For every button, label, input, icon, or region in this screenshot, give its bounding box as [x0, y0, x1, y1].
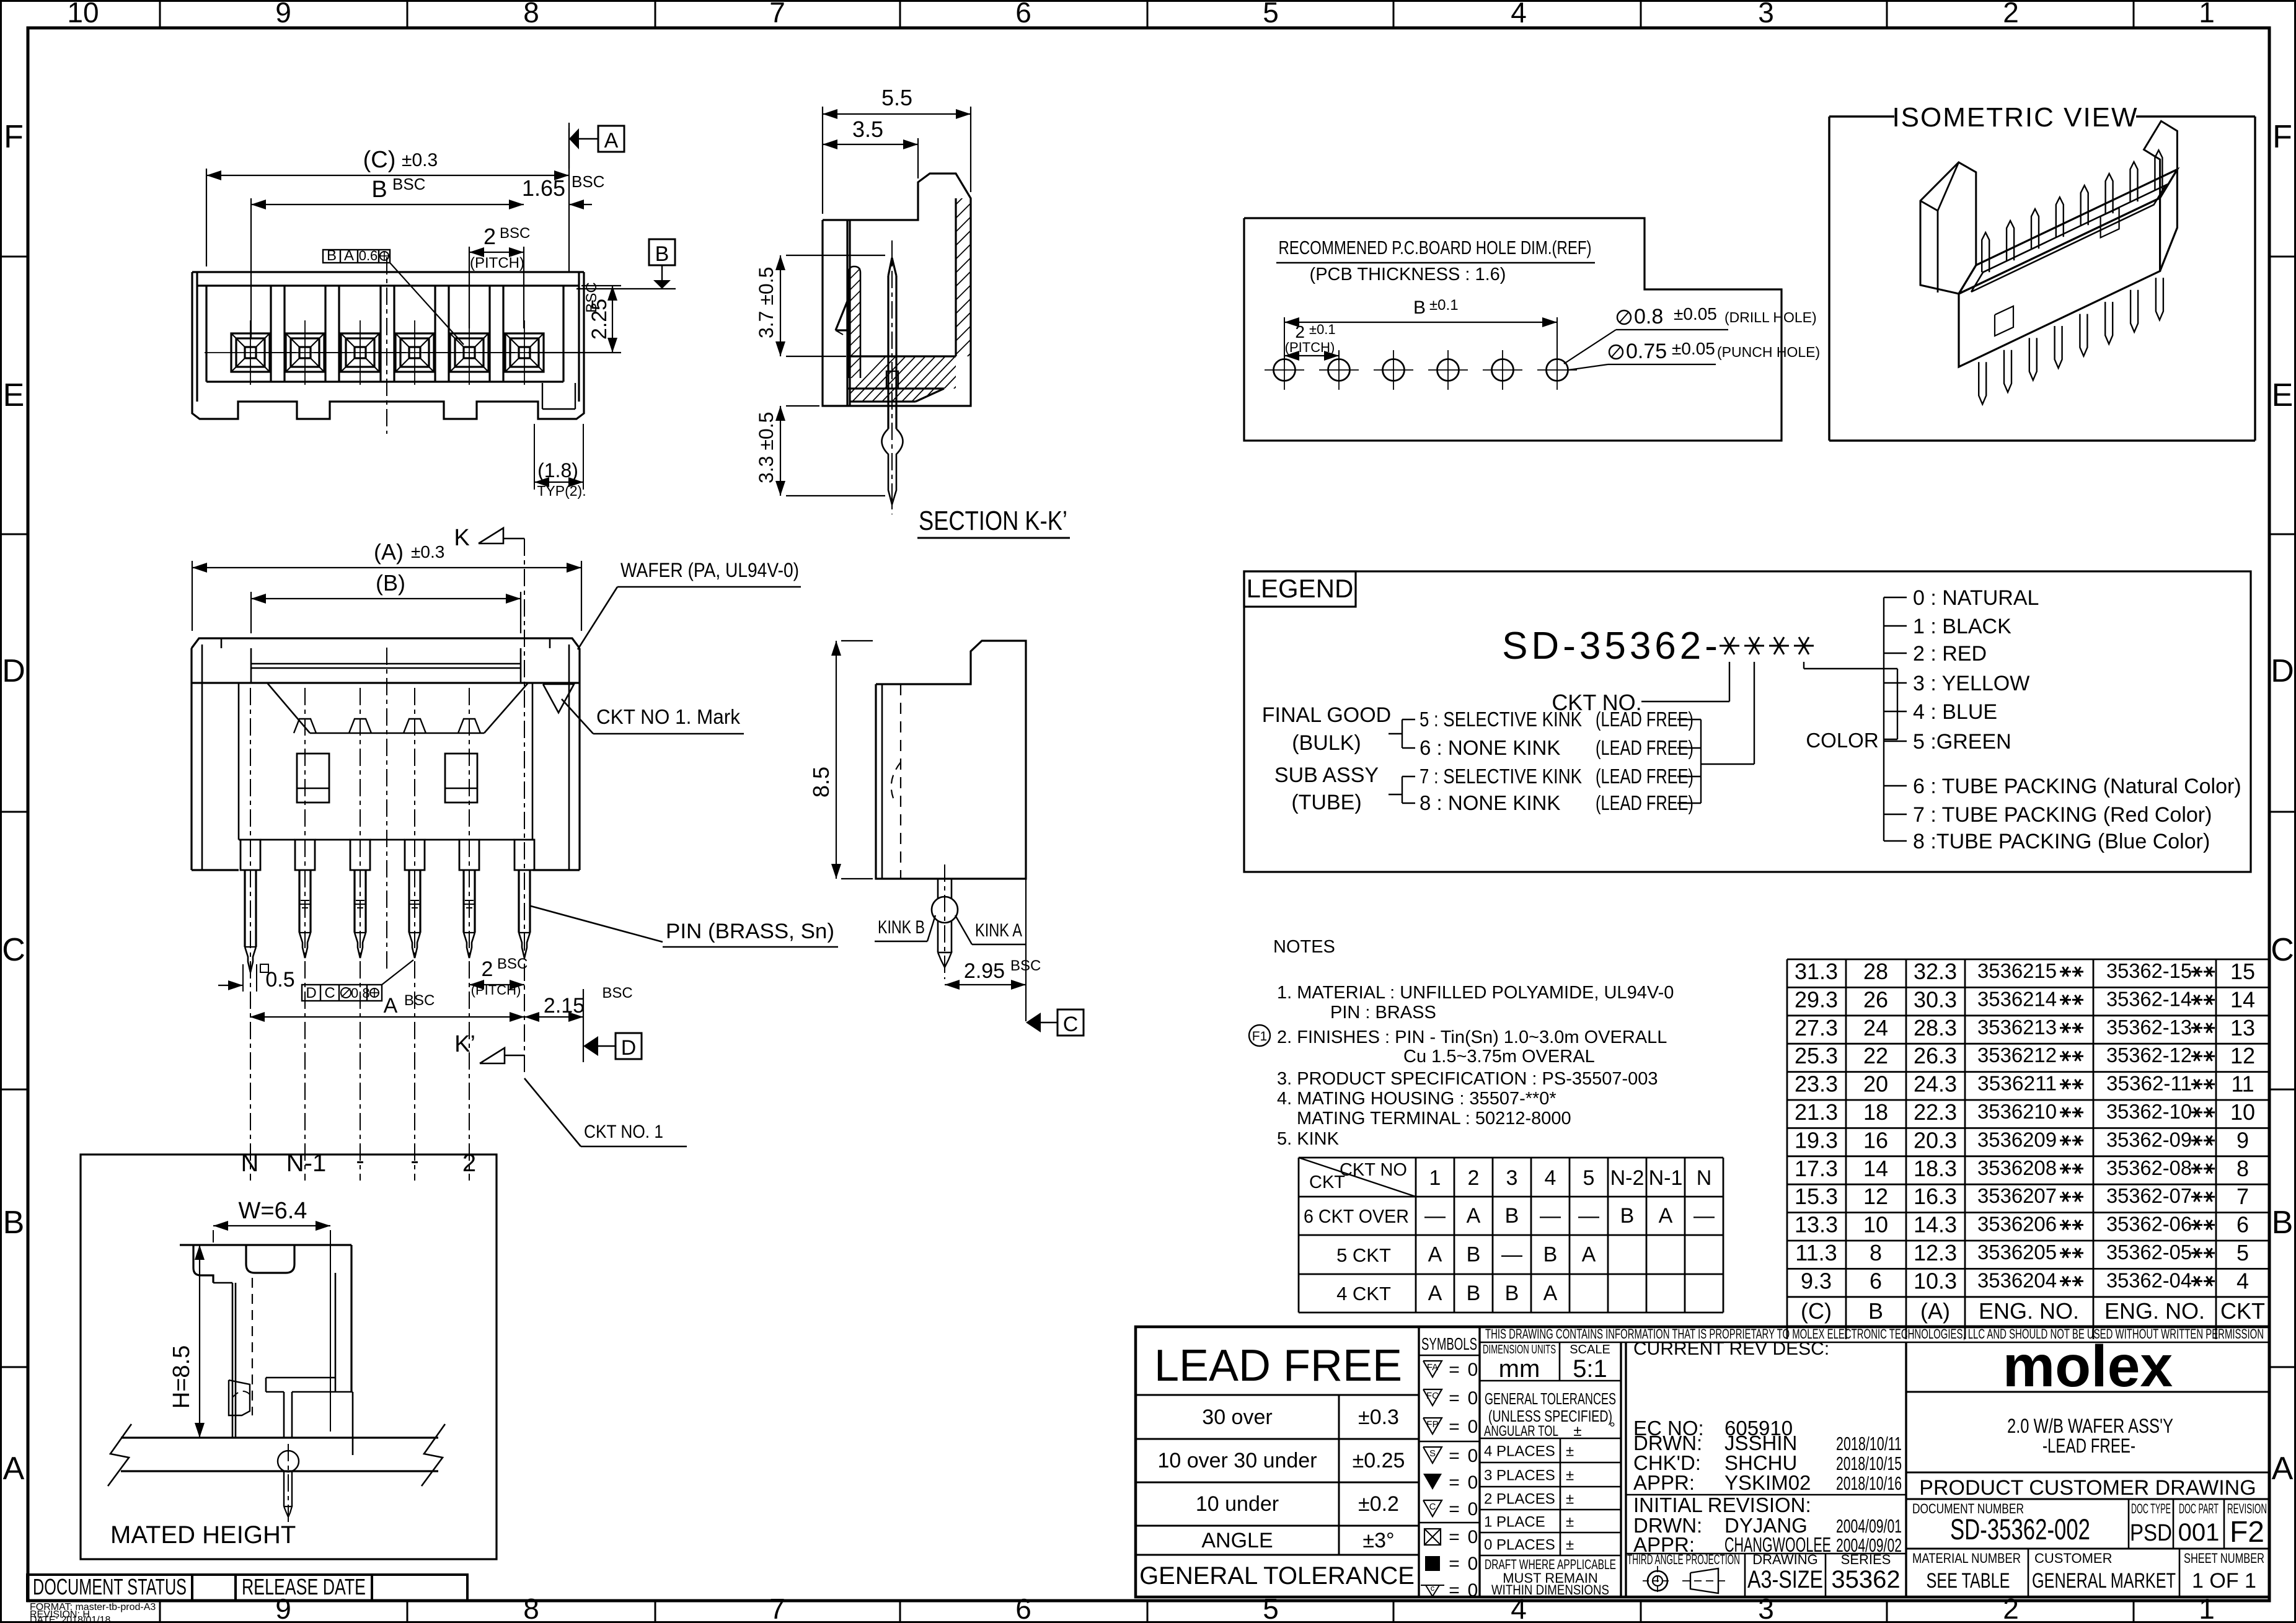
- svg-text:=: =: [1449, 1446, 1460, 1466]
- svg-text:10 under: 10 under: [1196, 1492, 1279, 1516]
- svg-text:2004/09/01: 2004/09/01: [1836, 1515, 1902, 1537]
- svg-text:±: ±: [1566, 1443, 1574, 1460]
- svg-text:5. KINK: 5. KINK: [1277, 1129, 1340, 1149]
- bottom view housing band: [192, 638, 580, 648]
- svg-text:5 : SELECTIVE KINK: 5 : SELECTIVE KINK: [1420, 708, 1582, 731]
- kink table: [1299, 1157, 1723, 1159]
- section K-K outline: [823, 174, 971, 406]
- svg-text:B: B: [3, 1205, 25, 1241]
- svg-text:±0.1: ±0.1: [1309, 322, 1336, 337]
- svg-text:KINK B: KINK B: [878, 917, 925, 938]
- svg-text:15.3: 15.3: [1795, 1184, 1838, 1209]
- svg-text:20: 20: [1863, 1071, 1888, 1097]
- svg-text:0: 0: [1468, 1554, 1478, 1574]
- svg-text:N-2: N-2: [1610, 1166, 1645, 1190]
- svg-text:A: A: [604, 129, 619, 152]
- dim 2.25 BSC: [581, 285, 621, 286]
- svg-text:PIN : BRASS: PIN : BRASS: [1330, 1003, 1436, 1023]
- svg-text:A: A: [1543, 1282, 1558, 1305]
- svg-text:11.3: 11.3: [1795, 1240, 1837, 1265]
- svg-text:6: 6: [1015, 0, 1031, 29]
- svg-text:ANGLE: ANGLE: [1201, 1529, 1273, 1552]
- dim 0.5 pin: [242, 964, 244, 992]
- svg-text:5: 5: [2236, 1240, 2249, 1265]
- svg-text:=: =: [1449, 1527, 1460, 1547]
- dim W: [213, 1230, 214, 1243]
- symbol row FC: [1423, 1389, 1442, 1405]
- svg-text:10 over 30 under: 10 over 30 under: [1157, 1449, 1317, 1472]
- svg-text:SYMBOLS: SYMBOLS: [1421, 1334, 1477, 1353]
- isometric right end wall: [2144, 121, 2178, 198]
- svg-text:KINK A: KINK A: [975, 920, 1022, 941]
- svg-text:8: 8: [523, 1593, 539, 1623]
- svg-text:=: =: [1449, 1472, 1460, 1493]
- pin through pcb: [278, 1451, 299, 1472]
- svg-text:F: F: [4, 119, 24, 155]
- svg-text:B: B: [2272, 1205, 2294, 1241]
- svg-text:9.3: 9.3: [1801, 1268, 1832, 1293]
- symbol row ctri: [1426, 1585, 1439, 1596]
- svg-text:30.3: 30.3: [1914, 987, 1957, 1012]
- svg-text:LEAD FREE: LEAD FREE: [1154, 1341, 1402, 1391]
- svg-text:0.5: 0.5: [265, 968, 294, 992]
- isometric inner rim: [1971, 185, 2166, 292]
- section floor: [850, 355, 956, 357]
- svg-text:30 over: 30 over: [1202, 1405, 1272, 1429]
- svg-text:=: =: [1449, 1580, 1460, 1601]
- svg-text:D: D: [306, 985, 316, 1001]
- svg-text:0: 0: [1468, 1472, 1478, 1493]
- front view cavity dividers: [270, 286, 272, 382]
- svg-text:8 : NONE KINK: 8 : NONE KINK: [1420, 791, 1560, 814]
- svg-text:BSC: BSC: [602, 985, 632, 1001]
- svg-text:1.65: 1.65: [522, 175, 565, 201]
- svg-text:14.3: 14.3: [1914, 1212, 1957, 1238]
- mated connector outline: [180, 1244, 351, 1246]
- svg-text:6: 6: [1870, 1268, 1882, 1293]
- svg-text:26: 26: [1863, 987, 1888, 1012]
- svg-text:24: 24: [1863, 1015, 1888, 1040]
- svg-text:DOC TYPE: DOC TYPE: [2131, 1501, 2171, 1516]
- svg-text:0: 0: [1468, 1360, 1478, 1380]
- svg-text:A: A: [344, 247, 354, 264]
- svg-text:C: C: [2, 932, 25, 968]
- svg-text:BSC: BSC: [572, 172, 604, 191]
- svg-text:1. MATERIAL : UNFILLED POLYAMI: 1. MATERIAL : UNFILLED POLYAMIDE, UL94V-…: [1277, 983, 1674, 1003]
- svg-text:0: 0: [1468, 1527, 1478, 1547]
- svg-text:(C): (C): [1801, 1298, 1832, 1324]
- pin centerlines: [250, 688, 251, 1181]
- svg-text:molex: molex: [2003, 1334, 2173, 1399]
- svg-text:2 PLACES: 2 PLACES: [1484, 1491, 1555, 1508]
- svg-text:16.3: 16.3: [1914, 1184, 1957, 1209]
- svg-text:1 PLACE: 1 PLACE: [1484, 1514, 1545, 1531]
- bottom wall inner lines: [238, 683, 240, 840]
- drill hole leader: [1617, 310, 1631, 324]
- symbol row xbox: [1424, 1529, 1441, 1545]
- svg-text:—: —: [1693, 1204, 1715, 1228]
- svg-text:(A): (A): [374, 539, 404, 565]
- svg-text:6 : NONE KINK: 6 : NONE KINK: [1420, 736, 1560, 759]
- pcb holes: [1274, 359, 1296, 381]
- svg-text:BSC: BSC: [392, 175, 425, 193]
- svg-text:N: N: [1697, 1166, 1712, 1190]
- svg-text:5.5: 5.5: [881, 85, 912, 110]
- svg-text:DATE: 2018/01/18: DATE: 2018/01/18: [30, 1615, 111, 1623]
- svg-text:4. MATING HOUSING : 35507-**0*: 4. MATING HOUSING : 35507-**0*: [1277, 1089, 1556, 1109]
- svg-text:6 : TUBE PACKING (Natural Colo: 6 : TUBE PACKING (Natural Color): [1913, 775, 2241, 798]
- bottom edge and pin shoulders: [192, 869, 239, 871]
- bottom view interior funnel: [267, 683, 310, 733]
- svg-text:A: A: [2272, 1451, 2294, 1487]
- svg-text:±: ±: [1566, 1514, 1574, 1531]
- svg-text:NOTES: NOTES: [1273, 937, 1335, 957]
- svg-text:0: 0: [1468, 1417, 1478, 1437]
- svg-text:3.7 ±0.5: 3.7 ±0.5: [755, 267, 777, 338]
- svg-text:CURRENT REV DESC:: CURRENT REV DESC:: [1633, 1339, 1829, 1359]
- svg-text:MATED HEIGHT: MATED HEIGHT: [110, 1521, 296, 1549]
- svg-text:35362-11: 35362-11: [2106, 1072, 2192, 1095]
- isometric kink detail: [1995, 306, 2013, 336]
- svg-text:3536205: 3536205: [1977, 1241, 2057, 1264]
- svg-text:=: =: [1449, 1554, 1460, 1574]
- isometric pins bottom: [1979, 362, 1986, 404]
- svg-text:4: 4: [1511, 0, 1527, 29]
- svg-text:3536212: 3536212: [1977, 1044, 2057, 1067]
- svg-text:4 CKT: 4 CKT: [1336, 1283, 1391, 1304]
- proprietary strip: [1480, 1342, 2269, 1344]
- svg-text:SECTION K-K’: SECTION K-K’: [919, 506, 1067, 536]
- zone strip top: [159, 1, 161, 28]
- svg-text:-LEAD FREE-: -LEAD FREE-: [2042, 1435, 2135, 1457]
- svg-text:3 PLACES: 3 PLACES: [1484, 1467, 1555, 1484]
- svg-text:3: 3: [1506, 1166, 1518, 1190]
- svg-text:13.3: 13.3: [1795, 1212, 1838, 1238]
- svg-text:14: 14: [2230, 987, 2255, 1012]
- svg-text:(PITCH): (PITCH): [470, 255, 524, 271]
- title col dividers: [1418, 1327, 1420, 1597]
- svg-text:8: 8: [1870, 1240, 1882, 1265]
- svg-text:10.3: 10.3: [1914, 1268, 1957, 1293]
- svg-text:=: =: [1449, 1499, 1460, 1520]
- svg-text:24.3: 24.3: [1914, 1071, 1957, 1097]
- tolerance rows: [1136, 1438, 1419, 1440]
- svg-text:LEGEND: LEGEND: [1247, 574, 1354, 603]
- zone strip sides: [1, 256, 28, 258]
- pcb hole recommendation panel: [1244, 218, 1782, 441]
- svg-text:CKT: CKT: [2220, 1298, 2265, 1324]
- svg-text:-: -: [410, 1147, 418, 1174]
- section pin: [888, 258, 896, 276]
- svg-text:N-1: N-1: [1649, 1166, 1683, 1190]
- dim B+-0.1 pcb: [1284, 317, 1285, 363]
- svg-text:DOCUMENT STATUS: DOCUMENT STATUS: [33, 1574, 187, 1599]
- svg-text:INITIAL REVISION:: INITIAL REVISION:: [1633, 1493, 1811, 1516]
- pcb in mated view: [121, 1436, 438, 1438]
- svg-text:FC: FC: [1426, 1391, 1439, 1401]
- mated left wedge: [229, 1380, 250, 1415]
- svg-text:2.0 W/B WAFER ASS'Y: 2.0 W/B WAFER ASS'Y: [2007, 1415, 2173, 1437]
- dim 5.5: [822, 107, 823, 214]
- svg-text:F: F: [2272, 119, 2292, 155]
- svg-text:3536204: 3536204: [1977, 1269, 2057, 1291]
- latch windows: [297, 754, 329, 803]
- front view pins: [231, 333, 270, 372]
- svg-text:±0.05: ±0.05: [1674, 304, 1717, 323]
- svg-text:28.3: 28.3: [1914, 1015, 1957, 1040]
- dim 2 pitch pcb: [1338, 351, 1340, 361]
- svg-text:0.75: 0.75: [1626, 340, 1667, 363]
- svg-text:1: 1: [1429, 1166, 1441, 1190]
- svg-text:3536215: 3536215: [1977, 959, 2057, 982]
- dim 3.3 +-0.5: [786, 405, 819, 407]
- svg-text:2: 2: [1468, 1166, 1480, 1190]
- svg-text:±: ±: [1566, 1467, 1574, 1484]
- symbol row C: [1423, 1500, 1442, 1516]
- svg-text:25.3: 25.3: [1795, 1043, 1838, 1068]
- pin kink marks: [301, 900, 309, 901]
- svg-text:11: 11: [2231, 1071, 2254, 1097]
- svg-text:DIMENSION UNITS: DIMENSION UNITS: [1483, 1343, 1556, 1357]
- svg-text:C: C: [1063, 1013, 1079, 1036]
- svg-text:4 : BLUE: 4 : BLUE: [1913, 700, 1997, 724]
- svg-text:BSC: BSC: [583, 282, 600, 312]
- CKT NO 1 mark: [543, 684, 574, 713]
- svg-text:3 : YELLOW: 3 : YELLOW: [1913, 672, 2029, 695]
- svg-text:°: °: [1609, 1420, 1615, 1436]
- svg-text:COLOR: COLOR: [1806, 729, 1878, 752]
- connector front view housing: [192, 271, 584, 273]
- svg-text:SHEET NUMBER: SHEET NUMBER: [2184, 1550, 2264, 1566]
- svg-text:8: 8: [523, 0, 539, 29]
- svg-text:DRAWING: DRAWING: [1752, 1552, 1818, 1567]
- svg-text:CKT NO: CKT NO: [1340, 1160, 1407, 1180]
- svg-text:F2: F2: [2230, 1516, 2264, 1549]
- svg-text:±0.1: ±0.1: [1429, 297, 1459, 314]
- svg-text:GENERAL MARKET: GENERAL MARKET: [2032, 1569, 2176, 1593]
- svg-text:A: A: [1659, 1204, 1673, 1228]
- svg-text:35362-06: 35362-06: [2106, 1213, 2192, 1236]
- front view center line: [386, 257, 387, 434]
- svg-text:6: 6: [2236, 1212, 2249, 1238]
- svg-text:CUSTOMER: CUSTOMER: [2034, 1550, 2113, 1566]
- svg-text:±0.3: ±0.3: [402, 150, 438, 170]
- svg-text:±0.3: ±0.3: [411, 542, 444, 561]
- svg-text:7: 7: [769, 0, 785, 29]
- svg-text:35362-09: 35362-09: [2106, 1128, 2192, 1151]
- svg-text:22: 22: [1863, 1043, 1888, 1068]
- svg-text:3. PRODUCT SPECIFICATION : PS-: 3. PRODUCT SPECIFICATION : PS-35507-003: [1277, 1069, 1658, 1089]
- svg-text:MATING TERMINAL : 50212-8000: MATING TERMINAL : 50212-8000: [1297, 1109, 1571, 1128]
- svg-text:5 :GREEN: 5 :GREEN: [1913, 730, 2011, 754]
- dim 3.5: [917, 138, 919, 178]
- svg-text:-: -: [356, 1147, 364, 1174]
- svg-text:—: —: [1540, 1204, 1561, 1228]
- dim B BSC: [250, 198, 252, 338]
- svg-text:D: D: [2271, 653, 2294, 689]
- svg-text:(PUNCH HOLE): (PUNCH HOLE): [1717, 344, 1820, 360]
- dim 2.95 BSC: [1025, 879, 1027, 1021]
- svg-text:4 PLACES: 4 PLACES: [1484, 1443, 1555, 1460]
- svg-text:17.3: 17.3: [1795, 1156, 1838, 1181]
- svg-text:B: B: [371, 177, 387, 203]
- svg-text:5: 5: [1583, 1166, 1595, 1190]
- legend ckt no leader: [1729, 662, 1730, 702]
- svg-text:B: B: [1543, 1243, 1558, 1267]
- svg-text:10: 10: [67, 0, 99, 29]
- side view hidden pin: [900, 684, 901, 879]
- dim 2 BSC pitch bottom: [469, 984, 524, 985]
- svg-text:=: =: [1449, 1388, 1460, 1409]
- svg-text:A: A: [3, 1451, 25, 1487]
- svg-text:35362-04: 35362-04: [2106, 1269, 2192, 1291]
- svg-text:6: 6: [1015, 1593, 1031, 1623]
- svg-text:27.3: 27.3: [1795, 1015, 1838, 1040]
- svg-text:1: 1: [2199, 0, 2215, 29]
- svg-text:H=8.5: H=8.5: [169, 1345, 195, 1409]
- svg-text:0: 0: [1468, 1446, 1478, 1466]
- svg-text:F1: F1: [1252, 1029, 1268, 1044]
- svg-text:16: 16: [1863, 1127, 1888, 1153]
- places rows: [1480, 1462, 1621, 1464]
- symbol row filltri: [1423, 1474, 1442, 1490]
- svg-text:YSKIM02: YSKIM02: [1724, 1471, 1811, 1494]
- svg-text:4: 4: [2236, 1268, 2249, 1293]
- units scale cells: [1559, 1343, 1561, 1381]
- svg-text:3536206: 3536206: [1977, 1213, 2057, 1236]
- svg-text:3536209: 3536209: [1977, 1128, 2057, 1151]
- svg-text:=: =: [1449, 1417, 1460, 1437]
- datum C flag: [1026, 1013, 1041, 1032]
- svg-text:K’: K’: [454, 1031, 475, 1057]
- svg-text:35362-08: 35362-08: [2106, 1156, 2192, 1179]
- svg-text:A: A: [1582, 1243, 1596, 1267]
- svg-text:K: K: [454, 525, 469, 551]
- svg-text:35362-07: 35362-07: [2106, 1184, 2192, 1207]
- svg-text:3: 3: [1758, 0, 1774, 29]
- svg-text:(PITCH): (PITCH): [1285, 340, 1335, 355]
- svg-text:B: B: [1620, 1204, 1635, 1228]
- svg-text:FP: FP: [1426, 1419, 1438, 1430]
- datum D flag: [583, 1036, 598, 1056]
- svg-text:0: 0: [1468, 1580, 1478, 1601]
- svg-text:0.8: 0.8: [351, 985, 370, 1001]
- svg-text:20.3: 20.3: [1914, 1127, 1957, 1153]
- svg-text:CKT NO. 1: CKT NO. 1: [584, 1122, 663, 1142]
- svg-text:±: ±: [1566, 1491, 1574, 1508]
- svg-text:ENG. NO.: ENG. NO.: [2104, 1298, 2205, 1324]
- pins bottom view: [244, 870, 245, 947]
- svg-text:3536208: 3536208: [1977, 1156, 2057, 1179]
- svg-text:B: B: [327, 247, 337, 264]
- svg-text:(TUBE): (TUBE): [1291, 791, 1361, 814]
- svg-text:0: 0: [1468, 1499, 1478, 1520]
- svg-text:B: B: [1413, 297, 1426, 318]
- side view pin: [937, 879, 939, 899]
- dim 3.7 +-0.5: [786, 255, 885, 256]
- svg-text:(1.8): (1.8): [537, 459, 578, 482]
- svg-text:SD-35362-002: SD-35362-002: [1950, 1513, 2090, 1546]
- svg-text:(A): (A): [1920, 1298, 1950, 1324]
- svg-text:(LEAD FREE): (LEAD FREE): [1596, 736, 1693, 759]
- svg-text:8 :TUBE PACKING (Blue Color): 8 :TUBE PACKING (Blue Color): [1913, 830, 2210, 853]
- svg-text:(PITCH): (PITCH): [471, 982, 521, 998]
- svg-text:9: 9: [2236, 1127, 2249, 1153]
- svg-text:A: A: [1467, 1204, 1481, 1228]
- legend kink leader: [1754, 662, 1755, 764]
- svg-text:B: B: [1467, 1243, 1481, 1267]
- svg-text:2 : RED: 2 : RED: [1913, 642, 1987, 666]
- svg-text:ISOMETRIC VIEW: ISOMETRIC VIEW: [1892, 102, 2138, 133]
- legend color list: [1883, 597, 1884, 841]
- svg-text:E: E: [2272, 377, 2294, 413]
- svg-text:B: B: [1868, 1298, 1883, 1324]
- svg-text:28: 28: [1863, 959, 1888, 984]
- svg-text:PSD: PSD: [2130, 1520, 2172, 1546]
- svg-text:(LEAD FREE): (LEAD FREE): [1596, 708, 1693, 731]
- svg-text:THIRD ANGLE PROJECTION: THIRD ANGLE PROJECTION: [1627, 1552, 1740, 1567]
- svg-text:±0.25: ±0.25: [1353, 1449, 1405, 1472]
- svg-text:REVISION: REVISION: [2227, 1501, 2267, 1516]
- svg-text:0 : NATURAL: 0 : NATURAL: [1913, 586, 2039, 610]
- svg-text:1 OF 1: 1 OF 1: [2192, 1569, 2256, 1593]
- svg-text:35362-05: 35362-05: [2106, 1241, 2192, 1264]
- svg-text:001: 001: [2178, 1519, 2220, 1546]
- F1 bubble: [1249, 1025, 1270, 1046]
- svg-text:±3°: ±3°: [1362, 1529, 1394, 1552]
- svg-text:—: —: [1578, 1204, 1599, 1228]
- svg-text:(B): (B): [376, 570, 405, 596]
- svg-text:(LEAD FREE): (LEAD FREE): [1596, 791, 1693, 814]
- svg-text:BSC: BSC: [500, 225, 530, 242]
- svg-text:C: C: [324, 985, 335, 1001]
- svg-text:SERIES: SERIES: [1841, 1552, 1891, 1567]
- svg-text:26.3: 26.3: [1914, 1043, 1957, 1068]
- svg-text:=: =: [1449, 1360, 1460, 1380]
- svg-text:MATERIAL NUMBER: MATERIAL NUMBER: [1912, 1550, 2021, 1566]
- svg-text:21.3: 21.3: [1795, 1099, 1838, 1125]
- svg-text:35362-10: 35362-10: [2106, 1100, 2192, 1123]
- svg-text:35362-13: 35362-13: [2106, 1016, 2192, 1039]
- svg-text:2.95: 2.95: [964, 959, 1005, 983]
- dim 2 BSC pitch front: [469, 247, 470, 328]
- svg-text:C: C: [1429, 1502, 1436, 1512]
- feature control frame B A 0.6: [323, 250, 390, 263]
- svg-text:2: 2: [1295, 322, 1305, 341]
- svg-text:±: ±: [1566, 1537, 1574, 1554]
- svg-text:±0.3: ±0.3: [1358, 1405, 1399, 1429]
- isometric connector body: [1959, 169, 2177, 294]
- svg-text:3536214: 3536214: [1977, 987, 2057, 1010]
- svg-text:CKT NO 1. Mark: CKT NO 1. Mark: [596, 705, 740, 728]
- svg-text:c: c: [1431, 1583, 1435, 1593]
- symbol row fbox: [1425, 1556, 1440, 1571]
- mated height box: [81, 1155, 497, 1559]
- svg-text:CKT: CKT: [1309, 1172, 1345, 1192]
- legend color leader: [1803, 662, 1804, 669]
- svg-text:5:1: 5:1: [1573, 1355, 1607, 1383]
- feature frame D C 0.8: [302, 985, 382, 1001]
- svg-text:DOC PART: DOC PART: [2179, 1501, 2219, 1516]
- isometric pins top: [1982, 232, 1989, 272]
- svg-text:0.8: 0.8: [1634, 305, 1663, 328]
- svg-text:2.15: 2.15: [544, 994, 585, 1018]
- svg-text:Cu 1.5~3.75m OVERAL: Cu 1.5~3.75m OVERAL: [1403, 1047, 1595, 1067]
- svg-text:D: D: [621, 1036, 637, 1060]
- svg-text:8.5: 8.5: [808, 767, 834, 798]
- svg-text:12.3: 12.3: [1914, 1240, 1957, 1265]
- dim 1.8 TYP2 foot: [534, 424, 535, 490]
